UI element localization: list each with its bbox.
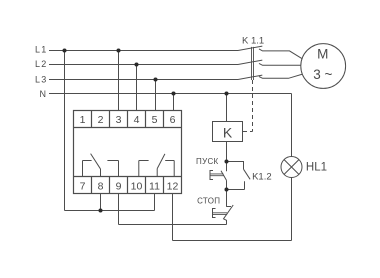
- svg-text:K 1.1: K 1.1: [242, 35, 264, 46]
- svg-text:10: 10: [131, 180, 143, 192]
- svg-text:9: 9: [116, 180, 122, 192]
- svg-text:3: 3: [116, 114, 122, 126]
- svg-text:K1.2: K1.2: [252, 172, 272, 183]
- svg-text:5: 5: [152, 114, 158, 126]
- svg-text:6: 6: [170, 114, 176, 126]
- svg-text:4: 4: [134, 114, 140, 126]
- svg-text:N: N: [39, 89, 47, 99]
- svg-text:ПУСК: ПУСК: [196, 157, 219, 166]
- svg-text:L2: L2: [35, 59, 48, 69]
- svg-text:7: 7: [80, 180, 86, 192]
- svg-text:СТОП: СТОП: [197, 197, 220, 206]
- svg-text:K: K: [223, 124, 233, 140]
- svg-text:HL1: HL1: [306, 162, 327, 174]
- svg-text:L1: L1: [35, 45, 48, 55]
- svg-text:L3: L3: [35, 74, 48, 84]
- svg-text:2: 2: [98, 114, 104, 126]
- svg-text:1: 1: [80, 114, 86, 126]
- svg-text:3 ~: 3 ~: [313, 67, 332, 82]
- svg-text:12: 12: [167, 180, 179, 192]
- svg-text:8: 8: [98, 180, 104, 192]
- svg-text:M: M: [317, 46, 328, 61]
- svg-text:11: 11: [149, 180, 160, 192]
